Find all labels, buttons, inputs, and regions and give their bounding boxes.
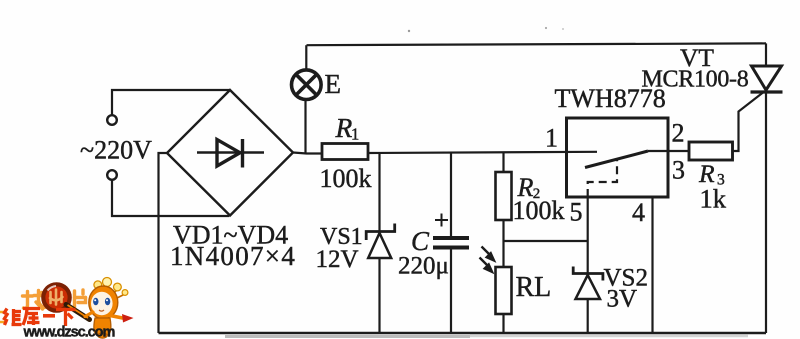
svg-text:1: 1 <box>351 125 359 144</box>
watermark red text weiku yixia <box>4 309 76 327</box>
main bus wire R1 to IC pin1 <box>368 152 597 153</box>
wire down to R2 <box>502 153 504 172</box>
IC internal dashed control path <box>588 159 617 198</box>
AC terminal top <box>107 115 117 125</box>
svg-text:RL: RL <box>516 272 552 303</box>
svg-text:100k: 100k <box>320 164 372 193</box>
capacitor plus sign <box>435 214 448 227</box>
svg-text:1k: 1k <box>700 184 727 214</box>
bridge diode symbol <box>197 139 264 168</box>
thyristor VT <box>751 66 783 92</box>
svg-text:3: 3 <box>672 156 685 185</box>
svg-text:220μ: 220μ <box>398 253 449 280</box>
resistor R3 <box>689 142 733 160</box>
resistor R2 <box>496 172 512 220</box>
svg-text:100k: 100k <box>513 196 565 225</box>
photoresistor RL <box>496 267 512 314</box>
pin 5 wire to VS2 <box>587 197 589 273</box>
wire top terminal to bridge top vertex <box>112 90 230 115</box>
top bus wire <box>307 43 767 45</box>
svg-text:www.dzsc.com: www.dzsc.com <box>23 324 115 339</box>
capacitor C plates <box>433 238 469 248</box>
wire down to capacitor C <box>450 153 452 236</box>
zener VS2 <box>573 267 603 300</box>
svg-text:4: 4 <box>632 198 645 227</box>
resistor R1 <box>322 144 368 160</box>
bridge rectifier VD1~VD4 diamond <box>167 90 293 216</box>
svg-text:3V: 3V <box>607 286 638 313</box>
lamp E <box>292 70 322 100</box>
svg-text:1N4007×4: 1N4007×4 <box>170 241 296 271</box>
wire lamp to main bus <box>304 101 306 154</box>
wire top bus down to lamp <box>305 45 307 71</box>
wire VS1 to bottom bus <box>378 258 380 333</box>
right bus wire top <box>765 43 767 66</box>
AC terminal bottom <box>107 170 117 180</box>
svg-text:MCR100-8: MCR100-8 <box>642 67 749 93</box>
svg-text:R: R <box>335 112 353 143</box>
wire bottom terminal to bridge bottom vertex <box>112 180 229 216</box>
right bus wire bottom <box>765 92 767 333</box>
wire R3 to thyristor gate <box>733 93 764 152</box>
RL light arrows <box>480 247 495 272</box>
IC internal switch arm <box>585 151 648 168</box>
wire C to bottom bus <box>450 248 452 333</box>
pin 2/3 wire IC to R3 <box>648 150 689 152</box>
scan smudge bottom edge <box>225 335 470 338</box>
svg-text:2: 2 <box>672 119 685 148</box>
wire RL to bottom bus <box>502 314 504 333</box>
svg-text:12V: 12V <box>316 246 359 273</box>
svg-text:C: C <box>411 226 430 256</box>
wire VS2 to bottom bus <box>587 299 589 333</box>
svg-text:5: 5 <box>570 198 583 227</box>
IC TWH8778 box <box>567 118 669 197</box>
wire R2-RL junction to pin5 line <box>504 240 588 242</box>
watermark logo <box>0 278 134 339</box>
zener VS1 <box>366 224 395 259</box>
svg-text:~220V: ~220V <box>80 136 152 165</box>
wire down to VS1 <box>378 153 380 231</box>
bottom bus wire <box>159 332 767 334</box>
wire bridge left vertex to bottom bus <box>159 153 168 333</box>
wire R2 to RL <box>502 220 504 267</box>
pin 4 wire to bottom bus <box>651 197 653 333</box>
svg-text:1: 1 <box>545 124 558 153</box>
svg-text:E: E <box>325 69 342 99</box>
main bus wire bridge to R1 <box>293 153 322 154</box>
